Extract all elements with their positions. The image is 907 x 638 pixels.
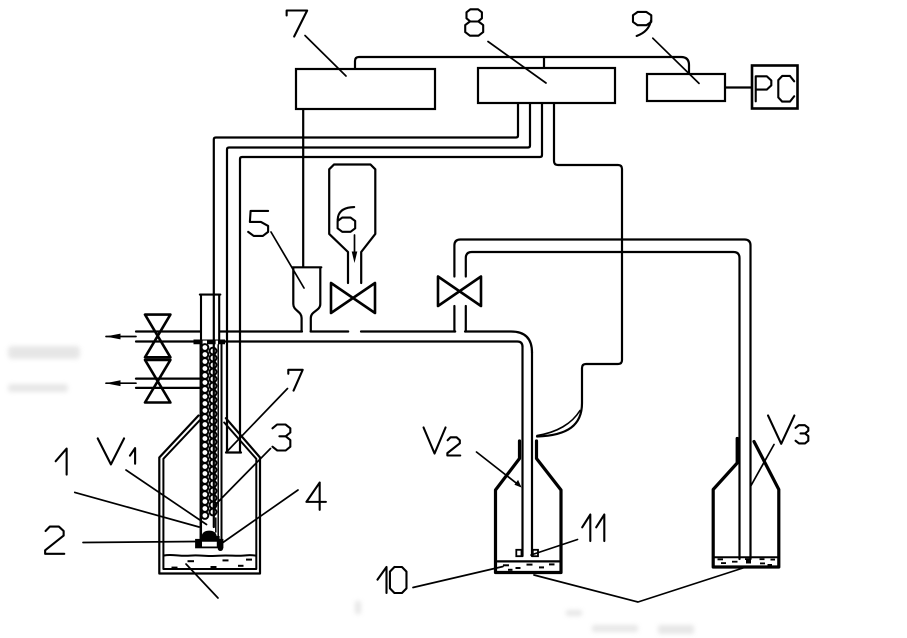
wire box9 to PC: [725, 86, 752, 88]
label 8: [465, 9, 483, 35]
leader 5: [271, 232, 304, 288]
leader 9: [653, 38, 699, 83]
inlet arrow 2: [106, 382, 136, 384]
valve (left bottom, vertical): [145, 360, 170, 403]
V2 liquid dashes: [503, 564, 509, 566]
tube top black caps: [194, 340, 226, 345]
leader V3: [751, 445, 775, 487]
leader 3: [214, 449, 271, 507]
PC box: [752, 66, 798, 109]
pipe drop to V2 left wall: [521, 347, 523, 556]
inlet arrow 1: [106, 336, 136, 338]
V3 liquid dashes: [718, 559, 724, 561]
wire tap down to box 8: [543, 57, 545, 68]
wire top bus from box 7 over box 8 to box 9: [355, 57, 689, 74]
coil tube right inner wall: [217, 344, 219, 540]
label 3: [272, 425, 290, 451]
leader 7: [305, 36, 346, 77]
pipe main horizontal bottom line: [136, 342, 523, 347]
valve V (left top, vertical): [145, 315, 170, 358]
neck tube above coil: [201, 296, 219, 340]
box 7 (controller): [296, 69, 435, 109]
crucible black dome 1: [202, 531, 217, 538]
label 5: [248, 211, 268, 236]
leader bottom flask: [186, 564, 218, 598]
leader 2: [83, 542, 196, 543]
black bead 4: [218, 546, 223, 551]
wire thermocouple 1 (into coil tube center): [214, 103, 518, 527]
V2 liquid surface: [498, 560, 560, 562]
pipe 2 (to coil tube) top line: [136, 378, 200, 380]
label V3: [768, 415, 794, 443]
funnel 6: [329, 165, 375, 284]
leader V2: [477, 452, 521, 486]
label V1: [98, 438, 124, 464]
label 10: [378, 567, 387, 593]
wire box7 down to sensor 5: [302, 109, 304, 267]
leader 10: [413, 567, 503, 588]
valve under funnel (horizontal): [331, 283, 375, 313]
label 4: [306, 483, 325, 510]
coil tube left wall: [200, 344, 203, 540]
flask liquid surface: [164, 555, 256, 556]
wire thermowell lead A: [227, 103, 530, 452]
pipe V2 end feet: [516, 550, 521, 556]
pipe from valve up and right to V3, outer line: [454, 240, 750, 560]
pipe below valve to main pipe: [453, 306, 455, 332]
label 9: [633, 12, 651, 36]
leader 11: [531, 540, 578, 556]
label V2: [424, 428, 446, 454]
label 1: [56, 449, 67, 475]
label 7 (tube): [288, 370, 302, 391]
pipe main horizontal top line: [136, 332, 532, 353]
flask liquid dashes: [188, 560, 195, 562]
box 8 (controller): [478, 68, 615, 103]
label 7 (top): [287, 11, 308, 37]
leader V1: [126, 470, 207, 525]
heater coil (spring): [202, 344, 217, 519]
wire thermocouple into vessel V2: [537, 103, 622, 437]
vessel V2: [496, 441, 562, 573]
inner tube below coil: [215, 518, 217, 532]
vessel V3: [713, 439, 779, 568]
leader 8: [488, 42, 546, 84]
leader 4: [222, 490, 299, 544]
sensor vessel 5: [292, 267, 321, 331]
label 6: [338, 207, 356, 232]
watermark smudges: [8, 346, 694, 634]
thermowell closed bottom: [226, 451, 241, 453]
sample boat 2 (white tray): [196, 540, 223, 548]
pipe drop to V2 right wall: [531, 352, 533, 556]
leader 1: [75, 492, 199, 527]
box 9 (interface): [647, 74, 725, 101]
wire thermowell lead B: [240, 103, 542, 452]
pipe inner line: [466, 252, 740, 559]
V3 pipe end mark: [746, 559, 751, 564]
V3 liquid surface: [715, 556, 777, 558]
flask V1 outer wall: [159, 416, 260, 574]
valve (right, horizontal): [438, 277, 481, 307]
label 11: [582, 515, 590, 542]
pipe 2 bottom line: [136, 387, 200, 389]
wire tail to crucible: [213, 518, 215, 527]
label 2: [45, 527, 64, 554]
thermocouple wire end lower arc: [537, 411, 580, 436]
leader pair to bottom point: [534, 568, 743, 602]
flask V1 inner wall: [163, 420, 256, 569]
coil tube right outer wall: [221, 344, 223, 540]
funnel feed arrow: [354, 235, 356, 252]
PC text: [756, 76, 772, 101]
leader 7 tube: [226, 389, 288, 453]
boat feet: [196, 540, 202, 548]
